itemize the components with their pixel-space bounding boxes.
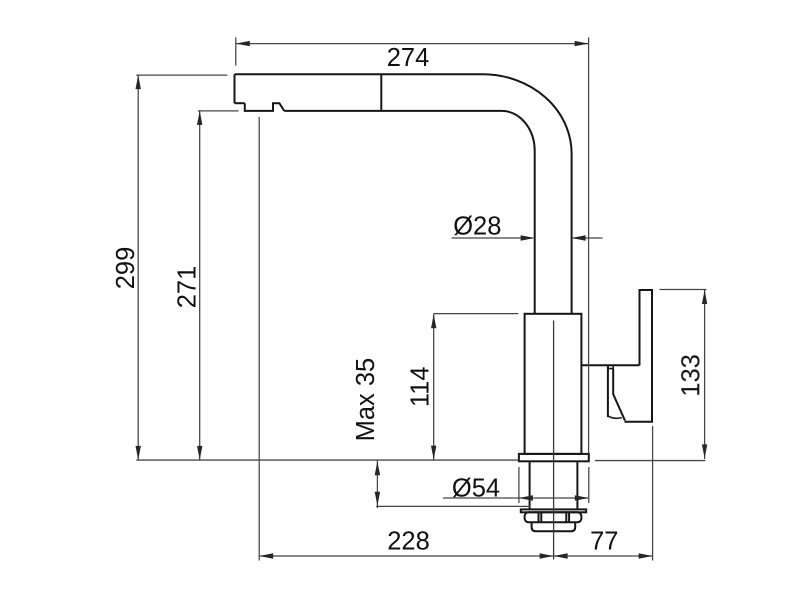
- arrow 228 right: [540, 553, 554, 558]
- faucet spout outer profile with bend: [235, 74, 572, 313]
- pull-out head divider: [380, 74, 382, 111]
- threaded shank left edge: [529, 461, 531, 509]
- arrow max35 down: [375, 492, 380, 506]
- arrow 133 up: [702, 290, 707, 304]
- lever swing arc: [608, 416, 622, 418]
- spout tip bottom edge: [235, 102, 245, 104]
- dim max35 line: [376, 460, 378, 508]
- arrow 133 down: [702, 444, 707, 458]
- arrow 228 left: [259, 553, 273, 558]
- svg-text:77: 77: [590, 528, 618, 556]
- dim 299 top leader: [136, 74, 227, 76]
- threaded shank right edge: [576, 461, 578, 509]
- arrow 114 up: [431, 314, 436, 328]
- dim o54 extension left: [518, 467, 520, 503]
- dim 228 and 77 line: [259, 555, 652, 557]
- dim 133 top leader: [660, 289, 707, 291]
- arrow 271 down: [197, 446, 202, 460]
- svg-text:114: 114: [407, 366, 435, 407]
- arrow o28 left-pointing: [572, 235, 586, 240]
- lever rod right edge: [613, 369, 625, 421]
- svg-text:Ø28: Ø28: [453, 213, 501, 241]
- arrow 271 up: [197, 111, 202, 125]
- lock washer: [521, 509, 586, 512]
- arrow 77 right: [639, 553, 653, 558]
- arrow 274 right: [575, 41, 589, 46]
- dim o54 line with leader: [443, 497, 589, 499]
- dim o54 extension right: [588, 467, 590, 503]
- countertop reference line: [136, 459, 705, 462]
- arrow o28 right-pointing: [521, 235, 535, 240]
- lever rod left edge: [607, 365, 609, 417]
- dim 274 extension left: [235, 38, 237, 66]
- dim 274 line: [236, 43, 589, 45]
- dim 228 extension from nozzle: [258, 117, 260, 561]
- dim o28 leader left: [452, 237, 534, 239]
- arrow 299 up: [136, 75, 141, 89]
- arrow 299 down: [136, 446, 141, 460]
- svg-text:299: 299: [112, 247, 140, 290]
- dim 271 top leader: [198, 110, 239, 112]
- arrow 114 down: [431, 446, 436, 460]
- dim 228-77 extension right: [652, 426, 654, 561]
- nut facet lines: [539, 512, 570, 522]
- dim o28 leader right: [573, 237, 603, 239]
- svg-text:Max 35: Max 35: [352, 358, 380, 442]
- handle plate: [625, 290, 653, 422]
- arrow 274 left: [236, 41, 250, 46]
- dim max35 bottom leader: [376, 505, 530, 507]
- arrow 77 left: [554, 553, 568, 558]
- svg-text:271: 271: [174, 266, 202, 309]
- dim 274 extension right (long): [588, 38, 590, 454]
- handle connector line: [581, 364, 639, 366]
- aerator nozzle: [245, 103, 284, 111]
- arrow o54 left: [519, 495, 533, 500]
- dim 271 line: [199, 111, 201, 460]
- arrow max35 up: [375, 461, 380, 475]
- svg-text:133: 133: [677, 354, 705, 397]
- arrow o54 right: [575, 495, 589, 500]
- dim 133 line: [704, 290, 706, 460]
- dim 299 line: [137, 75, 139, 460]
- base flange: [519, 454, 589, 461]
- hose tail piece: [532, 522, 576, 531]
- svg-text:274: 274: [387, 44, 430, 72]
- centerline of body: [553, 321, 555, 560]
- lever pivot tab: [608, 365, 613, 368]
- faucet body: [525, 314, 582, 454]
- spout tip left edge: [234, 74, 236, 103]
- svg-text:Ø54: Ø54: [452, 475, 500, 503]
- faucet spout lower edge with inner bend: [284, 111, 535, 314]
- dim 114 line: [433, 314, 435, 460]
- dim 114 top leader: [434, 313, 519, 315]
- lock nut: [525, 512, 582, 522]
- svg-text:228: 228: [387, 528, 430, 556]
